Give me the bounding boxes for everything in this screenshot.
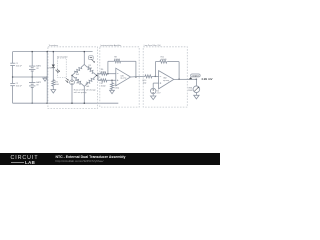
node lp feedback tap — [155, 76, 156, 77]
svg-text:1kΩ: 1kΩ — [89, 67, 93, 69]
ground R9 — [111, 89, 113, 91]
wire OA2 plus down — [152, 83, 154, 88]
wire left cap column upper — [12, 52, 14, 64]
transducer enclosure box — [48, 47, 98, 109]
resistor R10 — [142, 75, 156, 78]
svg-text:3V: 3V — [36, 84, 39, 86]
wire OA1 output — [131, 75, 142, 78]
wire R9 lower — [111, 89, 113, 90]
net flag output — [191, 74, 201, 77]
wire OA2 plus left — [153, 82, 158, 84]
svg-text:1kΩ: 1kΩ — [143, 83, 147, 85]
bridge resistor R2 (NW arm) — [71, 63, 85, 76]
wire OA2 output — [174, 78, 197, 80]
label BAT1 — [36, 64, 42, 70]
bridge resistor R4 (SW arm) — [71, 74, 85, 87]
wire lp feedback down — [178, 62, 180, 80]
label R1 1k — [55, 82, 59, 87]
wire top rail — [13, 51, 93, 53]
svg-text:10kΩ: 10kΩ — [101, 71, 106, 73]
op-amp OA1 — [116, 68, 131, 86]
label R2 — [76, 72, 80, 76]
node feedback tap — [107, 73, 108, 74]
wire left cap column mid — [12, 66, 14, 84]
svg-text:1kΩ: 1kΩ — [76, 74, 80, 76]
svg-text:1kΩ: 1kΩ — [76, 83, 80, 85]
svg-text:Low-Pass Filter (1k): Low-Pass Filter (1k) — [144, 44, 161, 47]
node battery top rail junction — [32, 51, 33, 52]
label VM1 — [188, 87, 193, 92]
wire lp feedback up — [154, 62, 156, 77]
label R3 — [89, 65, 93, 69]
label C1 100uF — [16, 63, 23, 68]
svg-text:1kΩ: 1kΩ — [86, 86, 90, 88]
label R8 100k — [114, 57, 120, 62]
svg-text:100 uF: 100 uF — [16, 86, 23, 88]
low-pass filter box — [143, 47, 187, 107]
resistor R9 — [111, 83, 114, 89]
ground LED column — [52, 89, 54, 90]
node mid rail battery junction — [32, 76, 33, 77]
wire input split vertical — [97, 73, 99, 80]
wire bridge right vertex out — [97, 74, 98, 76]
wire feedback down — [135, 61, 137, 77]
svg-text:4.99 mV: 4.99 mV — [201, 77, 212, 81]
svg-text:2.5V: 2.5V — [157, 93, 162, 95]
pot adjust icon — [89, 56, 94, 60]
label R11 100k — [161, 56, 167, 61]
node bridge left vertex — [71, 75, 72, 76]
annotation text — [74, 89, 97, 95]
svg-text:op-amp: op-amp — [163, 80, 169, 82]
svg-text:10kΩ: 10kΩ — [114, 87, 119, 89]
bridge resistor R5 (SE arm) — [83, 74, 97, 87]
wire R9 upper — [111, 80, 113, 83]
wire LED to R1 — [52, 68, 54, 81]
url text — [56, 159, 104, 163]
node lp output junction — [178, 79, 179, 80]
capacitor C1 — [10, 63, 15, 65]
ground VM1 — [195, 94, 197, 96]
wire to R7 — [98, 79, 101, 81]
wire left cap column bottom — [12, 86, 14, 104]
wire mid rail — [13, 76, 48, 78]
wire to R6 — [98, 73, 101, 75]
label C2 100uF — [16, 83, 23, 88]
svg-text:1kΩ: 1kΩ — [55, 84, 59, 86]
node photocell bottom junction — [71, 103, 72, 104]
svg-text:LED1: LED1 — [48, 67, 53, 69]
CircuitLab logo — [11, 155, 39, 161]
svg-text:Air Chamber: Air Chamber — [57, 56, 68, 59]
node output feedback junction — [135, 76, 136, 77]
label R7 10k — [101, 83, 106, 88]
wire feedback top right — [121, 60, 135, 62]
wire R6 to opamp minus — [107, 73, 116, 75]
label R6 10k — [101, 69, 106, 74]
label V2 — [157, 90, 162, 94]
wire LED column upper — [52, 52, 54, 65]
svg-text:3V: 3V — [36, 68, 39, 70]
wire V2 to ground — [152, 94, 154, 96]
svg-text:Instrumentation Amplifier: Instrumentation Amplifier — [100, 44, 121, 47]
wire R1 to ground — [52, 87, 54, 89]
node R9 tap — [111, 80, 112, 81]
wire bridge bottom to rail — [83, 86, 85, 103]
wire feedback up — [107, 61, 109, 73]
air chamber box — [58, 58, 67, 78]
bridge resistor R3 (NE arm) — [83, 63, 97, 76]
svg-text:1MΩ: 1MΩ — [188, 90, 193, 92]
wire right battery column — [46, 52, 48, 104]
resistor R1 — [52, 79, 55, 86]
svg-text:10kΩ: 10kΩ — [101, 86, 106, 88]
node bridge bottom rail junction — [84, 103, 85, 104]
wire meter upper — [195, 79, 197, 86]
wire photocell to bottom rail — [71, 85, 73, 104]
node battery bottom junction — [32, 103, 33, 104]
svg-text:output: output — [192, 75, 199, 78]
resistor R7 — [100, 79, 107, 82]
resistor R6 — [100, 72, 107, 75]
wire battery column mid — [31, 71, 33, 83]
wire input split vertical — [97, 74, 99, 81]
instrumentation amp box — [100, 47, 139, 107]
svg-text:100kΩ: 100kΩ — [114, 59, 120, 61]
title text — [56, 155, 126, 159]
svg-text:op-amp: op-amp — [120, 78, 126, 80]
node mid rail right junction — [47, 76, 48, 77]
label R9 10k — [114, 85, 119, 90]
wire bridge top to rail — [83, 52, 85, 65]
wire lp feedback top left — [155, 61, 159, 63]
voltmeter VM1 — [193, 86, 200, 93]
wire R7 to opamp plus — [107, 79, 116, 81]
battery BAT1 — [29, 66, 35, 71]
svg-text:100 uF: 100 uF — [16, 65, 23, 67]
node bridge top rail junction — [84, 51, 85, 52]
wire meter lower — [195, 93, 197, 96]
wire battery column lower — [31, 88, 33, 104]
ground V2 — [152, 95, 154, 97]
label R5 — [86, 84, 90, 89]
label R10 1k — [143, 80, 148, 85]
label BAT2 — [36, 81, 42, 87]
node cap column mid-rail junction — [12, 76, 13, 77]
ground battery mid rail — [44, 77, 46, 78]
resistor R8 — [113, 60, 121, 63]
node bottom rail right-col junction — [47, 103, 48, 104]
battery BAT2 — [29, 83, 35, 88]
wire bridge left vertex to photocell — [71, 75, 73, 80]
node bridge right vertex — [96, 75, 97, 76]
node meter junction — [196, 79, 197, 80]
capacitor C2 — [10, 83, 15, 85]
wire R10 to OA2 minus — [155, 75, 158, 77]
LED LED1 — [52, 65, 60, 73]
wire bottom rail — [13, 102, 119, 104]
resistor R11 — [159, 60, 167, 63]
light arrows to photocell — [66, 78, 69, 82]
voltage source V2 — [151, 88, 156, 93]
wire feedback top left — [108, 60, 114, 62]
op-amp OA2 — [159, 71, 174, 89]
node right column top junction — [47, 51, 48, 52]
wire lp feedback top right — [167, 61, 179, 63]
label R4 — [76, 80, 80, 85]
wire battery column upper — [31, 52, 33, 67]
node LED column top junction — [53, 51, 54, 52]
svg-text:Transducer: Transducer — [49, 44, 59, 47]
photocell P1 — [70, 80, 75, 85]
svg-text:100kΩ: 100kΩ — [161, 59, 167, 61]
